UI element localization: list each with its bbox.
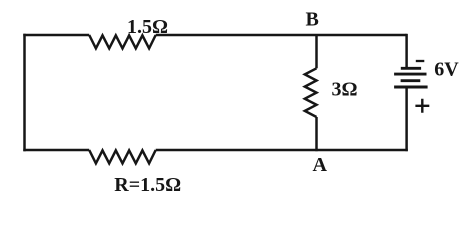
wire: bottom, resistor R=1.5Ω to bottom-right corner bbox=[156, 149, 408, 152]
wire: left side vertical bbox=[23, 34, 26, 151]
resistor R2 3Ω (vertical zigzag) bbox=[305, 68, 317, 117]
battery B1 plate 2 (long) bbox=[394, 73, 426, 76]
battery B1 plate 1 (short, negative terminal) bbox=[401, 67, 421, 70]
svg-text:A: A bbox=[313, 154, 328, 176]
wire: top, resistor 1.5Ω to top-right corner bbox=[156, 34, 407, 37]
wire: right side, battery positive plate down to bottom-right corner bbox=[405, 88, 408, 151]
wire: top, left corner to resistor 1.5Ω bbox=[23, 34, 89, 37]
battery B1 plate 3 (short) bbox=[401, 79, 421, 82]
svg-text:6V: 6V bbox=[434, 59, 459, 81]
svg-text:R=1.5Ω: R=1.5Ω bbox=[114, 174, 181, 196]
wire: right side, top-right corner down to battery negative plate bbox=[405, 34, 408, 67]
svg-text:3Ω: 3Ω bbox=[332, 78, 358, 100]
battery B1 plate 4 (long, positive terminal) bbox=[394, 86, 428, 89]
wire: bottom, left corner to resistor R=1.5Ω bbox=[23, 149, 89, 152]
wire: branch from node B down to resistor 3Ω bbox=[315, 35, 318, 68]
resistor R1 1.5Ω (top, zigzag) bbox=[89, 35, 156, 48]
svg-text:B: B bbox=[306, 8, 319, 30]
battery B1 positive polarity mark (+) bbox=[415, 99, 429, 113]
wire: resistor 3Ω down to bottom wire at node A bbox=[315, 117, 318, 151]
resistor R3 R=1.5Ω (bottom, zigzag) bbox=[89, 150, 156, 163]
battery B1 negative polarity mark (-) bbox=[416, 60, 425, 62]
